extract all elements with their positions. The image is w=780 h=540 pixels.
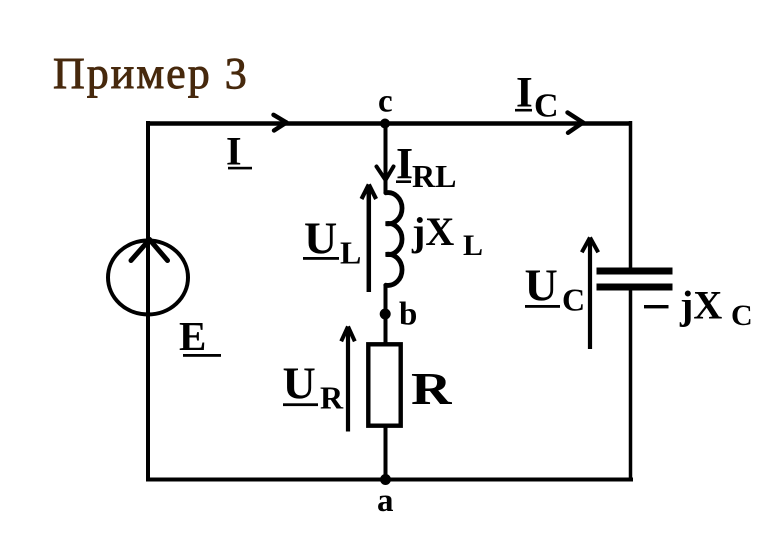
wire top (c node rail) (146, 121, 632, 126)
source E (EMF circle with arrow) (108, 240, 188, 315)
label IC (515, 70, 559, 125)
label IRL (396, 139, 456, 194)
label UC (525, 260, 586, 318)
wire right upper (to capacitor) (629, 121, 633, 269)
label E (179, 313, 221, 359)
label jXL (411, 209, 483, 262)
capacitor C bottom plate (597, 284, 673, 291)
wire bottom (a node rail) (146, 478, 633, 482)
svg-text:b: b (399, 297, 417, 333)
wire left (E branch) (146, 121, 150, 481)
label I (226, 129, 252, 174)
voltage arrow UL (362, 185, 377, 293)
svg-text:C: C (731, 299, 753, 332)
node b (380, 309, 391, 320)
svg-text:L: L (463, 229, 483, 262)
svg-text:jX: jX (411, 209, 454, 254)
wire middle b segment (inductor to resistor) (384, 284, 388, 344)
wire middle lower (resistor to a) (384, 425, 388, 481)
resistor R body (368, 344, 400, 425)
svg-text:Пример 3: Пример 3 (53, 49, 249, 98)
svg-text:U: U (525, 260, 558, 311)
svg-text:C: C (562, 282, 585, 318)
svg-text:E: E (179, 313, 206, 359)
current arrow IC (open head on top wire) (568, 113, 584, 133)
svg-text:c: c (378, 84, 393, 120)
svg-text:U: U (283, 358, 316, 409)
inductor L coil (three humps) (386, 193, 402, 286)
svg-text:R: R (411, 364, 453, 415)
svg-text:RL: RL (412, 158, 456, 194)
node a (380, 474, 391, 485)
label UR (283, 358, 345, 416)
label UL (303, 213, 361, 271)
svg-text:U: U (304, 213, 337, 264)
svg-text:L: L (340, 235, 361, 271)
voltage arrow UR (341, 327, 355, 432)
node c (380, 119, 390, 129)
label -jXC (644, 283, 753, 333)
current arrow I (open head on top wire) (274, 115, 287, 131)
svg-text:R: R (320, 380, 344, 416)
wire middle upper (c to inductor) (384, 123, 388, 193)
voltage arrow UC (582, 238, 598, 350)
svg-text:jX: jX (679, 283, 722, 328)
capacitor C top plate (597, 268, 673, 275)
current arrow IRL (down arrow on middle wire) (377, 167, 394, 181)
svg-text:a: a (377, 483, 394, 519)
svg-text:C: C (534, 88, 559, 125)
wire right lower (from capacitor) (629, 289, 633, 481)
svg-text:I: I (226, 129, 242, 174)
